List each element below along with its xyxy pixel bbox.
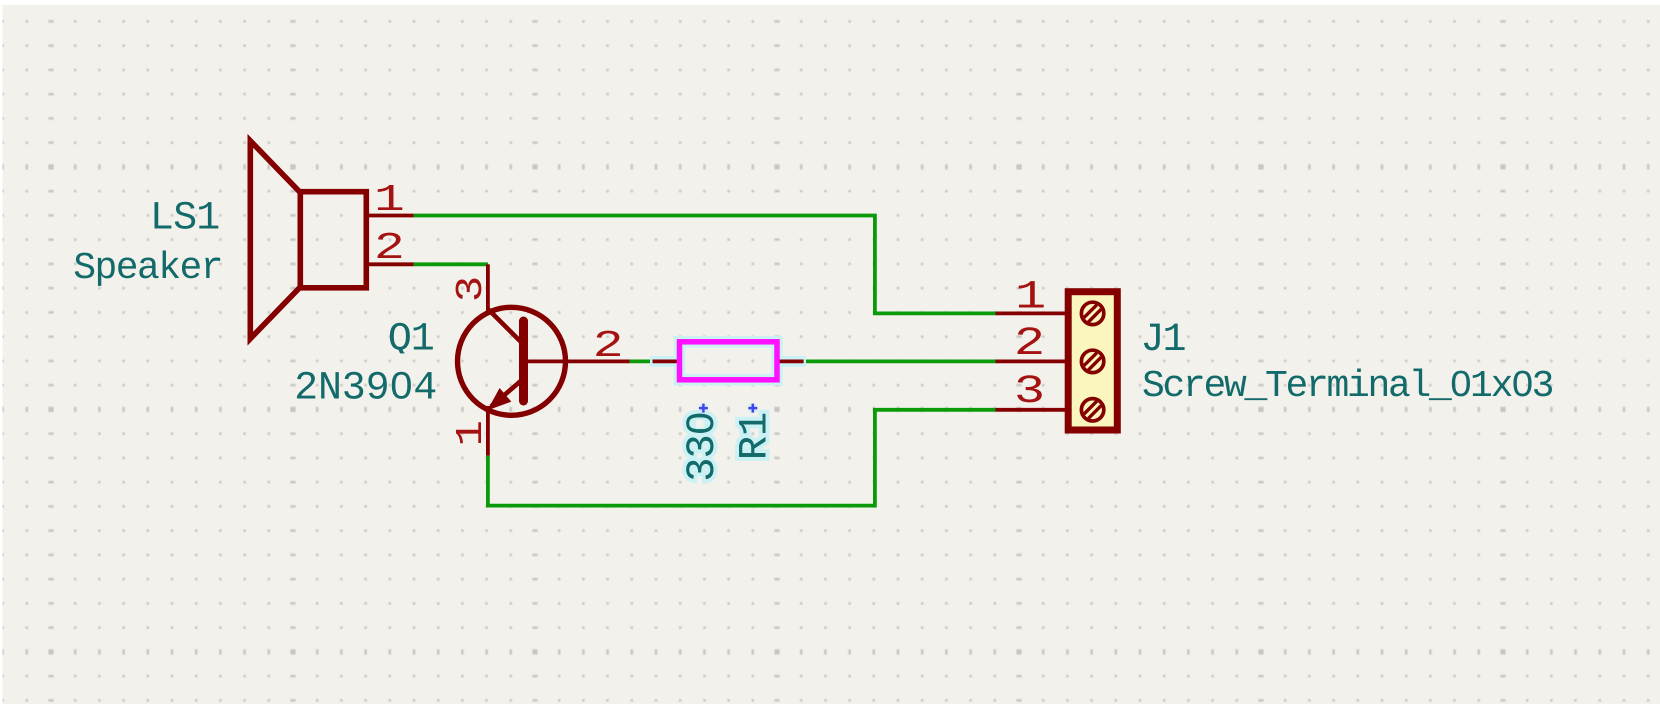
speaker pin 2 <box>366 262 413 266</box>
wire net 4b: resistor right to J1 pin2 <box>804 359 996 363</box>
svg-text:2N3904: 2N3904 <box>294 367 437 412</box>
emitter arrowhead <box>490 390 510 409</box>
speaker pin number 1 <box>374 179 405 222</box>
svg-text:2: 2 <box>374 227 405 270</box>
J1 pin number 1 <box>1015 276 1046 321</box>
collector diagonal <box>488 309 521 342</box>
J1 pin number 2 <box>1014 322 1045 367</box>
speaker cone <box>250 141 299 339</box>
J1 pin 2 <box>996 359 1066 363</box>
svg-text:J1: J1 <box>1141 318 1186 363</box>
J1 pin 3 <box>996 408 1066 412</box>
resistor glow: pins <box>650 356 680 367</box>
wire net 3: emitter to J1 pin3 <box>488 410 996 506</box>
transistor pin 3 (collector) <box>486 264 490 311</box>
wire net 1: speaker pin1 to J1 pin1 <box>414 216 996 314</box>
resistor pin right <box>779 359 804 363</box>
svg-text:Speaker: Speaker <box>73 247 222 290</box>
svg-text:Screw_Terminal_01x03: Screw_Terminal_01x03 <box>1142 365 1553 408</box>
ref R1 (rotated, glow) <box>734 412 779 460</box>
J1 body <box>1068 292 1117 430</box>
value 330 (rotated, glow) <box>681 412 726 482</box>
screw 1 <box>1081 302 1103 324</box>
transistor base bar <box>519 321 528 401</box>
font zero-dot covers <box>394 353 1526 427</box>
resistor pin left <box>653 359 679 363</box>
wire net 2: speaker pin2 to transistor collector <box>414 262 488 266</box>
speaker body rect <box>300 192 366 288</box>
emitter diagonal <box>491 381 521 407</box>
svg-text:1: 1 <box>374 179 405 222</box>
transistor body circle <box>458 307 566 415</box>
resistor glow: body <box>680 342 778 380</box>
transistor pin number 2 <box>593 325 624 368</box>
svg-text:3: 3 <box>450 276 493 302</box>
speaker pin number 2 <box>374 227 405 270</box>
transistor pin number 1 (rotated) <box>450 420 493 446</box>
transistor pin 1 (emitter) <box>486 406 490 456</box>
svg-text:1: 1 <box>1015 276 1046 321</box>
speaker LS1 <box>250 141 366 339</box>
svg-text:LS1: LS1 <box>150 197 220 242</box>
resistor body <box>680 342 778 380</box>
svg-text:2: 2 <box>1014 322 1045 367</box>
screw 3 <box>1081 399 1103 421</box>
transistor pin number 3 (rotated) <box>450 276 493 302</box>
svg-text:R1: R1 <box>734 412 779 460</box>
svg-text:3: 3 <box>1014 370 1045 415</box>
anchor plus marker for R1 <box>748 404 757 413</box>
screw 2 <box>1081 350 1103 372</box>
svg-text:2: 2 <box>593 325 624 368</box>
J1 pin number 3 <box>1014 370 1045 415</box>
wire net 4a: base to resistor left <box>630 359 654 363</box>
speaker pin 1 <box>366 214 413 218</box>
anchor plus marker for 330 <box>699 404 708 413</box>
J1 pin 1 <box>996 311 1066 315</box>
svg-text:1: 1 <box>450 420 493 446</box>
transistor pin 2 (base line) <box>523 359 630 363</box>
